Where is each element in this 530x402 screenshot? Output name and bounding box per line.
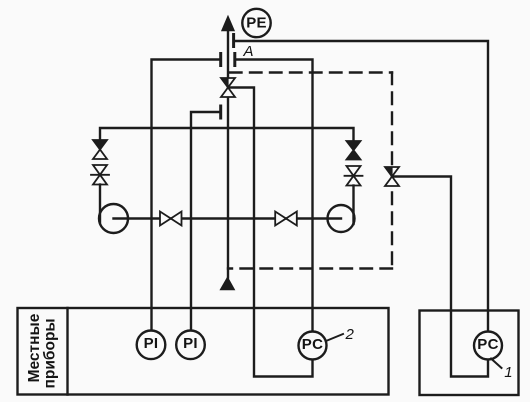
wire: impulse line to PI1	[152, 60, 220, 331]
wire: suction manifold line	[100, 128, 354, 141]
tap tick for line A	[233, 54, 236, 66]
pump P1 (left)	[99, 204, 128, 233]
check valve right (both triangles filled)	[347, 141, 361, 160]
wire: impulse line to PI2	[191, 112, 219, 331]
wire: discharge header	[114, 217, 342, 219]
instrument PI1	[137, 331, 166, 360]
controller box	[420, 311, 519, 396]
shutoff valve V2 on header (right bowtie)	[275, 212, 297, 226]
wire: impulse line to PE / PC1 top	[236, 41, 489, 332]
wire: left pump feed	[99, 185, 101, 223]
leader line for label 2	[326, 334, 343, 341]
tap tick for PE impulse line	[232, 35, 235, 47]
svg-text:2: 2	[345, 326, 355, 343]
svg-text:Местные: Местные	[26, 313, 43, 382]
instrument PE	[242, 9, 270, 37]
control valve U1 on main pipe (half-filled top triangle)	[221, 78, 235, 97]
svg-text:приборы: приборы	[42, 318, 59, 388]
flow arrow at pipe top	[222, 16, 235, 31]
svg-text:PC: PC	[302, 336, 323, 353]
svg-text:PI: PI	[144, 335, 159, 352]
gate valve left	[91, 165, 109, 185]
wire: dashed signal line top horizontal	[230, 71, 392, 73]
wire: signal line A to PC2 top	[237, 60, 313, 332]
local instruments panel box	[18, 308, 389, 395]
wire: right pump feed	[352, 186, 354, 225]
wire: main process pipe vertical segments	[227, 30, 229, 278]
instrument PI2	[176, 331, 205, 360]
solenoid valve on dashed line (half-filled top triangle)	[385, 167, 399, 186]
svg-text:A: A	[243, 43, 254, 60]
wire: dashed signal line bottom horizontal	[228, 267, 392, 269]
flow arrow at pipe bottom	[220, 277, 234, 290]
pump P2 (right)	[328, 205, 355, 232]
wire: dashed signal line right vertical	[391, 73, 393, 267]
svg-text:PE: PE	[246, 15, 267, 32]
tap tick for PI2 impulse line	[219, 106, 222, 118]
tap tick for PI1 impulse line	[219, 54, 222, 66]
wire: solenoid valve to PC1 bottom	[392, 177, 488, 377]
shutoff valve V1 on header (left bowtie)	[160, 212, 182, 226]
svg-text:PI: PI	[183, 335, 198, 352]
panel divider	[66, 308, 68, 395]
instrument PC1	[474, 332, 502, 360]
svg-text:PC: PC	[477, 336, 498, 353]
check valve left (filled top triangle)	[93, 140, 107, 159]
wire: control valve outlet line down to PC2 bottom	[228, 88, 313, 377]
instrument PC2	[299, 332, 327, 360]
gate valve right	[345, 166, 363, 186]
svg-text:1: 1	[504, 364, 512, 381]
leader line for label 1	[491, 359, 502, 369]
